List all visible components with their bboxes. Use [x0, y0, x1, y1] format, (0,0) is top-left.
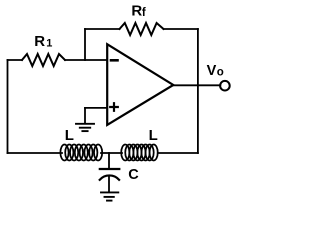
wire: capacitor to ground: [108, 177, 110, 192]
svg-text:V: V: [207, 63, 217, 79]
svg-text:f: f: [142, 7, 146, 19]
wire: non-inverting input line: [85, 107, 107, 109]
inductor L (right): [121, 145, 158, 161]
svg-text:C: C: [128, 167, 139, 183]
wire: feedback top left segment: [85, 28, 120, 30]
resistor R1: [22, 54, 65, 66]
wire: bottom rail left segment: [8, 152, 63, 154]
ground at capacitor: [101, 192, 118, 200]
wire: output from op-amp to terminal: [173, 84, 220, 86]
svg-text:o: o: [217, 67, 224, 79]
wire: inverting input line from R1 to op-amp: [65, 59, 107, 61]
wire: center tap segment between inductors: [101, 152, 122, 154]
op-amp non-inverting input (+) mark: [110, 103, 118, 111]
wire: bottom rail right segment: [158, 152, 198, 154]
op-amp U1 body: [107, 44, 173, 125]
wire: non-inverting input drop to ground: [84, 108, 86, 123]
svg-text:1: 1: [46, 37, 52, 49]
wire: left vertical rail: [7, 60, 9, 153]
wire: right vertical rail (Rf to output node to bottom rail): [197, 29, 199, 153]
ground at op-amp + input: [76, 124, 94, 131]
resistor Rf: [120, 23, 164, 35]
wire: feedback tap vertical from inverting input up to Rf: [84, 29, 86, 60]
inductor L (left): [60, 145, 102, 161]
capacitor C curved plate: [100, 175, 119, 179]
capacitor C top plate: [100, 168, 120, 170]
svg-text:L: L: [65, 127, 74, 144]
svg-text:R: R: [34, 33, 45, 50]
output terminal circle: [220, 81, 230, 91]
svg-text:R: R: [131, 3, 142, 20]
op-amp inverting input (-) mark: [111, 59, 118, 62]
svg-text:L: L: [149, 127, 158, 144]
wire: left lead of R1: [8, 59, 23, 61]
wire: feedback top right segment: [164, 28, 198, 30]
wire: capacitor branch from center tap: [108, 153, 110, 168]
